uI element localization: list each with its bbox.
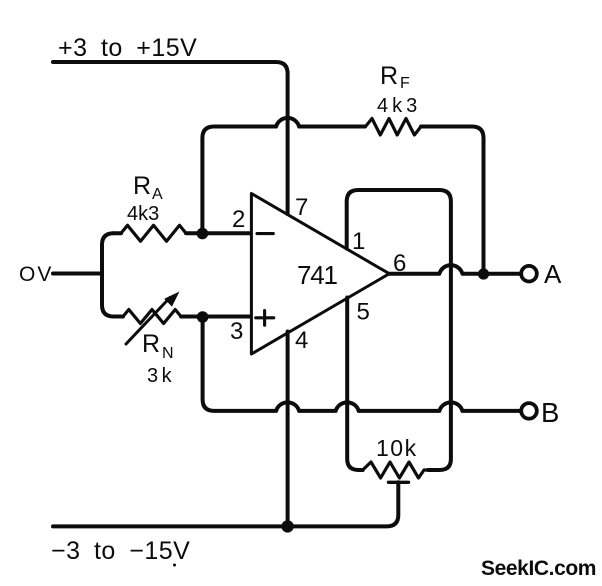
arrow of variable resistor RN — [126, 298, 170, 345]
svg-text:7: 7 — [295, 194, 308, 221]
plus symbol at non-inverting input — [256, 311, 274, 326]
wire +V rail to pin 7 — [53, 62, 288, 214]
svg-text:N: N — [162, 345, 174, 362]
wire RN to op-amp pin 3 — [181, 315, 250, 319]
wire input split vertical — [102, 233, 114, 316]
svg-text:3k: 3k — [147, 365, 175, 387]
svg-text:A: A — [544, 259, 562, 289]
wire RA to op-amp pin 2 — [186, 231, 250, 235]
resistor RN 3k zigzag (variable) — [123, 310, 181, 324]
svg-text:R: R — [133, 172, 151, 200]
svg-text:R: R — [380, 62, 398, 90]
svg-text:+3 to +15V: +3 to +15V — [58, 34, 197, 62]
svg-text:4: 4 — [295, 327, 308, 354]
junction node at pin 2 — [197, 228, 209, 240]
arrowhead of RN — [164, 292, 179, 307]
svg-text:5: 5 — [357, 299, 370, 326]
pot wiper bar — [389, 481, 409, 484]
potentiometer 10k zigzag — [363, 462, 428, 478]
svg-text:F: F — [400, 75, 410, 92]
junction node at output A — [478, 268, 489, 279]
wire pin3 node down to B line — [203, 317, 520, 411]
svg-text:−3 to −15V: −3 to −15V — [51, 537, 190, 565]
speck artifact — [173, 564, 176, 567]
svg-text:10k: 10k — [376, 435, 418, 461]
resistor RA 4k3 zigzag — [121, 225, 186, 241]
wire pin 5 down to pot left — [347, 298, 363, 471]
svg-text:R: R — [142, 330, 160, 358]
wire op-amp output to terminal A — [389, 265, 519, 274]
svg-text:4k3: 4k3 — [377, 95, 421, 117]
resistor RF 4k3 zigzag — [366, 119, 422, 136]
minus symbol at inverting input — [257, 232, 273, 235]
svg-text:4k3: 4k3 — [127, 203, 159, 225]
wire RF right side down to output node — [421, 127, 484, 275]
svg-text:SeekIC.com: SeekIC.com — [481, 557, 596, 580]
junction node at pin 3 — [197, 311, 209, 323]
wire op-amp pin 4 down to -V rail — [286, 332, 290, 527]
junction node on -V rail — [281, 520, 293, 532]
svg-text:6: 6 — [393, 250, 406, 277]
svg-text:B: B — [541, 397, 559, 428]
svg-text:2: 2 — [232, 206, 245, 233]
wire pot wiper down to -V rail — [53, 482, 398, 526]
svg-text:OV: OV — [19, 263, 53, 286]
svg-text:3: 3 — [230, 318, 243, 345]
svg-text:1: 1 — [352, 228, 365, 255]
wire RN baseline left — [114, 315, 124, 319]
op-amp U1 741 triangle — [251, 194, 389, 355]
wire offset null loop pin 1 over to right vertical — [347, 190, 451, 470]
svg-text:A: A — [152, 186, 163, 203]
svg-text:741: 741 — [297, 260, 338, 290]
wire RA baseline left — [114, 231, 122, 235]
terminal A circle — [521, 266, 537, 282]
wire RF branch from pin2 node up and right — [202, 118, 365, 234]
terminal B circle — [521, 403, 537, 419]
wire 0V input stub — [53, 272, 102, 276]
